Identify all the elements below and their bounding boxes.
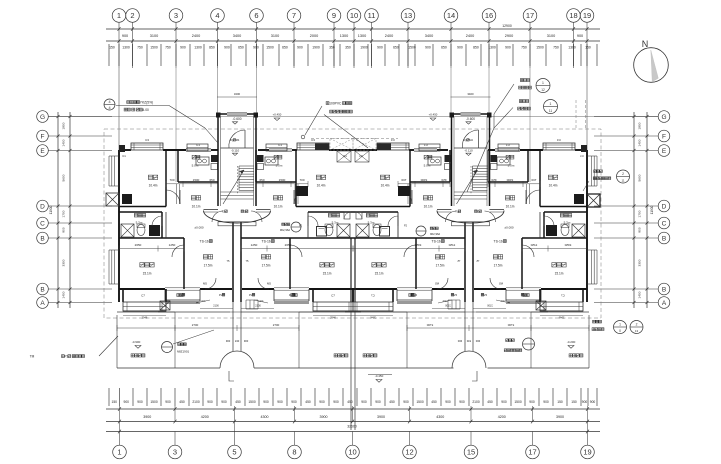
- svg-text:900: 900: [180, 46, 186, 50]
- svg-text:450: 450: [389, 400, 395, 404]
- svg-text:2700: 2700: [192, 323, 199, 327]
- svg-text:3Q: 3Q: [463, 138, 466, 142]
- svg-text:900: 900: [375, 400, 381, 404]
- svg-text:900: 900: [123, 400, 129, 404]
- svg-text:3900: 3900: [320, 415, 328, 419]
- svg-text:962,96d: 962,96d: [430, 232, 441, 236]
- svg-text:B: B: [40, 235, 44, 242]
- svg-text:1: 1: [550, 102, 552, 106]
- svg-text:3100: 3100: [271, 34, 279, 38]
- svg-text:11900: 11900: [49, 205, 53, 214]
- svg-text:10.4m: 10.4m: [381, 184, 390, 188]
- svg-text:750: 750: [521, 46, 527, 50]
- svg-text:0: 0: [619, 329, 621, 333]
- svg-text:+0.450: +0.450: [429, 113, 438, 117]
- svg-text:10: 10: [350, 11, 358, 20]
- svg-text:11900: 11900: [650, 205, 654, 214]
- svg-text:900: 900: [226, 339, 231, 343]
- svg-text:B: B: [662, 286, 666, 293]
- svg-text:450: 450: [347, 400, 353, 404]
- svg-text:900: 900: [319, 400, 325, 404]
- svg-text:1250: 1250: [251, 243, 258, 247]
- svg-text:+0.450: +0.450: [273, 113, 282, 117]
- svg-text:11: 11: [368, 11, 376, 20]
- svg-text:3900: 3900: [143, 415, 151, 419]
- svg-text:10.1m: 10.1m: [274, 205, 283, 209]
- svg-text:E: E: [662, 148, 667, 155]
- svg-text:G: G: [40, 114, 45, 121]
- svg-text:450: 450: [305, 400, 311, 404]
- svg-text:17: 17: [526, 11, 534, 20]
- svg-text:TS-1b: TS-1b: [494, 240, 503, 244]
- svg-text:750: 750: [137, 46, 143, 50]
- svg-text:D: D: [662, 203, 667, 210]
- svg-text:900: 900: [137, 400, 143, 404]
- svg-text:3900: 3900: [377, 415, 385, 419]
- svg-text:C1: C1: [196, 143, 200, 147]
- svg-text:150: 150: [585, 46, 591, 50]
- svg-text:2900: 2900: [505, 34, 513, 38]
- svg-text:1500: 1500: [514, 400, 522, 404]
- svg-text:11: 11: [621, 179, 624, 183]
- svg-text:7: 7: [292, 11, 296, 20]
- svg-text:3300: 3300: [638, 259, 642, 266]
- svg-text:2000: 2000: [310, 34, 318, 38]
- svg-text:F: F: [41, 133, 45, 140]
- svg-text:1300: 1300: [122, 46, 130, 50]
- svg-text:900: 900: [224, 46, 230, 50]
- svg-text:900: 900: [277, 400, 283, 404]
- svg-text:900: 900: [377, 46, 383, 50]
- svg-text:F: F: [662, 133, 666, 140]
- svg-text:1400: 1400: [62, 291, 66, 298]
- svg-text:450: 450: [235, 400, 241, 404]
- svg-text:350: 350: [345, 46, 351, 50]
- svg-text:1400: 1400: [62, 139, 66, 146]
- svg-text:A: A: [662, 300, 667, 307]
- svg-text:TS-1b: TS-1b: [200, 240, 209, 244]
- svg-text:5600: 5600: [62, 174, 66, 181]
- svg-text:1500: 1500: [266, 46, 274, 50]
- svg-text:900: 900: [403, 400, 409, 404]
- svg-text:900: 900: [221, 400, 227, 404]
- svg-text:1500: 1500: [416, 400, 424, 404]
- svg-text:T): T): [222, 210, 225, 214]
- svg-text:650: 650: [259, 178, 264, 182]
- svg-text:900: 900: [297, 46, 303, 50]
- svg-text:900: 900: [253, 46, 259, 50]
- svg-text:150: 150: [557, 400, 563, 404]
- svg-text:G: G: [661, 114, 666, 121]
- svg-text:-0.600: -0.600: [466, 117, 475, 121]
- svg-text:750: 750: [553, 46, 559, 50]
- svg-text:15.1m: 15.1m: [375, 272, 384, 276]
- svg-text:2946: 2946: [330, 316, 336, 320]
- svg-text:M5: M5: [267, 282, 271, 286]
- svg-text:450: 450: [487, 400, 493, 404]
- svg-text:150: 150: [111, 400, 117, 404]
- svg-text:900: 900: [457, 46, 463, 50]
- svg-text:-0.900: -0.900: [132, 340, 141, 344]
- svg-text:10.4m: 10.4m: [317, 184, 326, 188]
- svg-text:2100: 2100: [255, 305, 261, 308]
- svg-text:4300: 4300: [261, 415, 269, 419]
- svg-text:9: 9: [332, 11, 336, 20]
- svg-text:13: 13: [635, 329, 639, 333]
- svg-text:10.1m: 10.1m: [424, 205, 433, 209]
- svg-text:4300: 4300: [436, 415, 444, 419]
- svg-text:5.3m: 5.3m: [332, 221, 339, 225]
- svg-text:16: 16: [485, 11, 493, 20]
- svg-text:15: 15: [467, 448, 475, 457]
- svg-text:900: 900: [543, 400, 549, 404]
- svg-text:1700: 1700: [62, 210, 66, 217]
- svg-text:-0.110: -0.110: [464, 149, 473, 153]
- svg-text:4200: 4200: [201, 415, 209, 419]
- svg-text:±0.000: ±0.000: [194, 226, 203, 230]
- svg-text:±0.000: ±0.000: [504, 226, 513, 230]
- svg-text:32600: 32600: [347, 425, 357, 429]
- svg-text:900: 900: [445, 400, 451, 404]
- svg-text:E: E: [40, 148, 45, 155]
- svg-text:2400: 2400: [192, 34, 200, 38]
- svg-text:800: 800: [62, 227, 66, 232]
- svg-text:1500: 1500: [248, 400, 256, 404]
- svg-text:750: 750: [165, 46, 171, 50]
- svg-text:1: 1: [542, 81, 544, 85]
- svg-text:A: A: [40, 300, 45, 307]
- svg-text:1500: 1500: [150, 46, 158, 50]
- svg-text:-0.200: -0.200: [567, 340, 576, 344]
- svg-text:17.5m: 17.5m: [204, 264, 213, 268]
- svg-text:19: 19: [583, 11, 591, 20]
- svg-text:900: 900: [577, 34, 583, 38]
- svg-text:962,96d: 962,96d: [280, 228, 291, 232]
- svg-text:1: 1: [619, 323, 621, 327]
- svg-text:C7: C7: [141, 294, 145, 298]
- svg-text:N: N: [642, 39, 649, 49]
- svg-text:850: 850: [473, 46, 479, 50]
- svg-text:1500: 1500: [279, 178, 286, 182]
- svg-text:2: 2: [130, 11, 134, 20]
- svg-text:1400: 1400: [638, 139, 642, 146]
- svg-text:650: 650: [393, 46, 399, 50]
- svg-text:3400: 3400: [233, 34, 241, 38]
- svg-text:1300: 1300: [340, 34, 348, 38]
- svg-text:C1: C1: [122, 154, 126, 158]
- svg-text:900: 900: [207, 400, 213, 404]
- svg-text:4200: 4200: [498, 415, 506, 419]
- svg-text:100PVC: 100PVC: [329, 102, 342, 106]
- svg-text:3300: 3300: [62, 259, 66, 266]
- svg-text:150: 150: [571, 400, 577, 404]
- svg-text:1700: 1700: [638, 210, 642, 217]
- svg-text:900: 900: [165, 400, 171, 404]
- svg-text:TS-1b: TS-1b: [432, 240, 441, 244]
- svg-text:4: 4: [215, 11, 219, 20]
- svg-text:17.5m: 17.5m: [436, 264, 445, 268]
- svg-text:900: 900: [263, 400, 269, 404]
- svg-text:1: 1: [117, 448, 121, 457]
- svg-text:15.1m: 15.1m: [555, 272, 564, 276]
- svg-text:YKZ(5%): YKZ(5%): [140, 101, 153, 105]
- svg-text:450: 450: [179, 400, 185, 404]
- svg-text:900: 900: [361, 400, 367, 404]
- svg-text:3100: 3100: [547, 34, 555, 38]
- svg-text:1900: 1900: [312, 46, 320, 50]
- svg-text:10.4m: 10.4m: [549, 184, 558, 188]
- svg-text:17.5m: 17.5m: [262, 264, 271, 268]
- svg-text:2100: 2100: [192, 400, 200, 404]
- svg-text:15.1m: 15.1m: [323, 272, 332, 276]
- svg-text:15.1m: 15.1m: [143, 272, 152, 276]
- svg-text:3Q: 3Q: [230, 138, 233, 142]
- svg-text:900: 900: [505, 46, 511, 50]
- svg-text:17: 17: [528, 448, 536, 457]
- svg-text:5.0m: 5.0m: [192, 164, 199, 168]
- svg-text:2700: 2700: [273, 323, 280, 327]
- svg-text:2946: 2946: [142, 316, 148, 320]
- svg-text:TM: TM: [30, 355, 35, 359]
- svg-text:3400: 3400: [234, 92, 241, 96]
- svg-text:5: 5: [232, 448, 236, 457]
- svg-text:1: 1: [117, 11, 121, 20]
- svg-text:14: 14: [447, 11, 455, 20]
- svg-text:8: 8: [292, 448, 296, 457]
- svg-text:650: 650: [238, 46, 244, 50]
- svg-text:M5: M5: [203, 282, 207, 286]
- svg-text:5.0m: 5.0m: [276, 164, 283, 168]
- svg-text:N8Z1901: N8Z1901: [177, 350, 190, 354]
- svg-text:10.1m: 10.1m: [192, 205, 201, 209]
- svg-text:1300: 1300: [488, 46, 496, 50]
- svg-text:12: 12: [541, 88, 545, 92]
- svg-text:5.0m: 5.0m: [508, 164, 515, 168]
- svg-text:1500: 1500: [536, 46, 544, 50]
- svg-text:M4: M4: [469, 138, 473, 142]
- svg-text:5.3m: 5.3m: [564, 221, 571, 225]
- svg-text:2100: 2100: [472, 400, 480, 404]
- svg-text:1800: 1800: [638, 122, 642, 129]
- svg-text:850: 850: [209, 46, 215, 50]
- svg-text:1500: 1500: [193, 178, 200, 182]
- svg-text:-0.600: -0.600: [232, 117, 241, 121]
- svg-text:650: 650: [282, 46, 288, 50]
- svg-text:450: 450: [431, 400, 437, 404]
- svg-text:T): T): [455, 210, 458, 214]
- svg-text:5600: 5600: [638, 174, 642, 181]
- svg-text:800: 800: [638, 227, 642, 232]
- svg-text:5.3m: 5.3m: [368, 221, 375, 225]
- svg-text:C: C: [662, 220, 667, 227]
- svg-text:900: 900: [590, 400, 596, 404]
- svg-text:2400: 2400: [385, 34, 393, 38]
- svg-text:900: 900: [501, 400, 507, 404]
- svg-text:C1: C1: [278, 143, 282, 147]
- svg-text:4.00: 4.00: [142, 108, 149, 112]
- svg-text:2: 2: [636, 323, 638, 327]
- svg-text:3400: 3400: [425, 34, 433, 38]
- svg-text:3: 3: [173, 448, 177, 457]
- svg-text:650: 650: [209, 178, 214, 182]
- svg-text:TS-1b: TS-1b: [262, 240, 271, 244]
- svg-text:2100: 2100: [213, 305, 219, 308]
- svg-text:B: B: [662, 235, 666, 242]
- svg-text:1300: 1300: [568, 46, 576, 50]
- svg-text:900: 900: [425, 46, 431, 50]
- svg-text:1250: 1250: [169, 243, 176, 247]
- svg-text:17.5m: 17.5m: [494, 264, 503, 268]
- svg-text:19: 19: [583, 448, 591, 457]
- svg-text:900: 900: [244, 339, 249, 343]
- svg-text:900: 900: [529, 400, 535, 404]
- svg-text:150: 150: [109, 46, 115, 50]
- svg-text:10: 10: [348, 448, 356, 457]
- svg-text:1300: 1300: [358, 34, 366, 38]
- svg-text:10.4m: 10.4m: [149, 184, 158, 188]
- svg-text:900: 900: [291, 400, 297, 404]
- svg-text:6: 6: [254, 11, 258, 20]
- svg-text:C: C: [40, 220, 45, 227]
- svg-text:2650: 2650: [135, 243, 142, 247]
- svg-text:900: 900: [582, 400, 588, 404]
- svg-text:650: 650: [441, 46, 447, 50]
- svg-text:B: B: [40, 286, 44, 293]
- svg-text:1500: 1500: [150, 400, 158, 404]
- svg-text:900: 900: [459, 400, 465, 404]
- svg-text:1300: 1300: [194, 46, 202, 50]
- svg-text:5.3m: 5.3m: [136, 221, 143, 225]
- svg-text:2400: 2400: [466, 34, 474, 38]
- svg-text:3400: 3400: [467, 92, 474, 96]
- svg-text:1900: 1900: [360, 46, 368, 50]
- svg-text:240: 240: [235, 339, 240, 343]
- svg-text:13: 13: [404, 11, 412, 20]
- svg-text:1400: 1400: [638, 291, 642, 298]
- svg-text:12: 12: [405, 448, 413, 457]
- svg-text:3: 3: [174, 11, 178, 20]
- svg-text:5.0m: 5.0m: [424, 164, 431, 168]
- svg-text:2: 2: [622, 172, 624, 176]
- svg-text:C7: C7: [331, 294, 335, 298]
- svg-text:4: 4: [108, 100, 110, 104]
- svg-text:11: 11: [549, 109, 553, 113]
- svg-text:12900: 12900: [502, 24, 512, 28]
- svg-text:3100: 3100: [150, 34, 158, 38]
- svg-text:10.1m: 10.1m: [506, 205, 515, 209]
- svg-text:3900: 3900: [556, 415, 564, 419]
- svg-text:D: D: [40, 203, 45, 210]
- svg-text:4: 4: [108, 106, 110, 110]
- svg-text:18: 18: [569, 11, 577, 20]
- svg-text:-0.110: -0.110: [231, 149, 240, 153]
- svg-text:700: 700: [169, 178, 174, 182]
- svg-text:2650: 2650: [285, 243, 292, 247]
- svg-text:M4: M4: [236, 138, 240, 142]
- svg-text:900: 900: [122, 34, 128, 38]
- svg-text:900: 900: [333, 400, 339, 404]
- svg-text:C3: C3: [145, 138, 149, 142]
- svg-text:1800: 1800: [62, 122, 66, 129]
- svg-text:700: 700: [299, 178, 304, 182]
